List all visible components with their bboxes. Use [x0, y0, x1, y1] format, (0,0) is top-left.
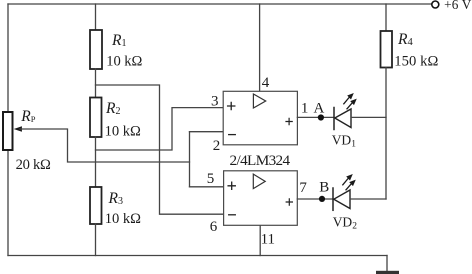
svg-text:4: 4 [262, 75, 270, 91]
svg-text:R4: R4 [397, 31, 413, 48]
resistor R1 [90, 30, 143, 70]
wire to op-amp2 non-inverting input (pin 5) [190, 186, 224, 188]
ground [376, 271, 399, 274]
svg-text:6: 6 [210, 219, 218, 235]
svg-text:+6 V: +6 V [444, 0, 472, 12]
wire RP wiper to node between pin2 and pin5 [20, 129, 190, 162]
svg-text:10 kΩ: 10 kΩ [106, 54, 142, 70]
wire op-amp1 output to LED VD1 [297, 116, 334, 118]
svg-text:7: 7 [299, 180, 307, 196]
svg-text:1: 1 [301, 101, 309, 117]
svg-text:2: 2 [213, 138, 221, 154]
+6V supply terminal [432, 0, 472, 12]
wire from top rail to R1 [95, 4, 97, 30]
svg-text:R1: R1 [111, 32, 126, 49]
potentiometer RP [3, 108, 51, 173]
wire R2/R3 junction to op-amp1 non-inverting input (pin 3) [96, 108, 224, 150]
wire LED VD1 to right rail [351, 116, 386, 118]
LED VD1 [332, 108, 357, 150]
svg-text:B: B [319, 179, 329, 195]
wire R2 to R3 [95, 137, 97, 187]
wire vertical joining pin2 and pin5 wires [189, 132, 191, 187]
svg-text:2/4LM324: 2/4LM324 [230, 152, 291, 169]
svg-text:RP: RP [20, 108, 35, 125]
LED VD1 light arrows [344, 93, 357, 109]
wire LED VD2 to right rail [350, 198, 386, 200]
svg-text:VD1: VD1 [332, 132, 357, 149]
wire top rail to op-amp1 power (pin 4) [259, 4, 261, 91]
wire R1/R2 junction to op-amp2 inverting input (pin 6) [96, 85, 224, 214]
svg-text:11: 11 [261, 231, 275, 247]
svg-text:10 kΩ: 10 kΩ [105, 211, 141, 227]
node A junction dot [318, 114, 324, 120]
wire top supply rail [8, 3, 432, 5]
resistor R2 [90, 98, 141, 140]
svg-text:VD2: VD2 [333, 214, 358, 231]
wire op-amp2 ground (pin 11) to bottom rail [259, 225, 261, 255]
svg-text:R2: R2 [105, 100, 120, 117]
svg-text:5: 5 [207, 171, 215, 187]
op-amp U1b [224, 171, 298, 226]
resistor R3 [90, 187, 141, 227]
wiper arrow of RP [14, 126, 22, 131]
resistor R4 [381, 31, 439, 69]
wire R1 to R2 [95, 69, 97, 98]
LED VD2 [333, 188, 358, 232]
wire left rail [7, 4, 9, 256]
svg-text:R3: R3 [108, 190, 123, 207]
node B junction dot [319, 196, 325, 202]
wire op-amp2 output to LED VD2 [297, 198, 333, 200]
wire top rail to R4 [385, 4, 387, 31]
wire to op-amp1 inverting input (pin 2) [190, 131, 224, 133]
wire right rail R4 down to LED wires [385, 68, 387, 200]
wire R3 to bottom rail [95, 224, 97, 256]
wire bottom rail to ground [386, 256, 388, 272]
svg-text:3: 3 [211, 94, 219, 110]
svg-text:20 kΩ: 20 kΩ [16, 157, 51, 173]
LED VD2 light arrows [343, 174, 356, 190]
wire bottom rail [8, 255, 387, 257]
svg-text:150 kΩ: 150 kΩ [394, 53, 438, 69]
svg-text:A: A [314, 101, 325, 117]
svg-text:10 kΩ: 10 kΩ [105, 123, 141, 139]
op-amp U1a [223, 91, 297, 145]
